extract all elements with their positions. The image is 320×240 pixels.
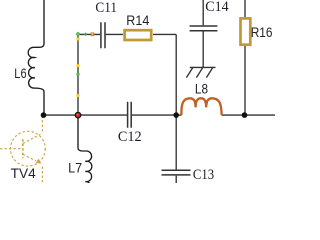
marker yellow 3 bbox=[77, 94, 80, 97]
inductor L6 bbox=[28, 0, 44, 115]
marker blue bbox=[77, 42, 78, 43]
wire R16 bottom lead bbox=[244, 46, 246, 115]
capacitor C14 bbox=[190, 26, 218, 31]
wire C11 to R14 bbox=[106, 33, 123, 35]
svg-text:C14: C14 bbox=[205, 0, 229, 15]
resistor R14 bbox=[125, 30, 152, 40]
wire vertical node column bbox=[77, 34, 79, 115]
node red bbox=[75, 112, 82, 119]
marker green diamond corner bbox=[76, 32, 80, 36]
marker green diamond small bbox=[84, 33, 87, 36]
wire middle rail left bbox=[44, 114, 128, 116]
capacitor C12 bbox=[128, 102, 132, 128]
svg-text:R14: R14 bbox=[126, 12, 149, 28]
junction dot A bbox=[41, 112, 47, 118]
ground bbox=[186, 67, 215, 77]
svg-text:C13: C13 bbox=[193, 167, 214, 183]
marker yellow 1 bbox=[77, 38, 80, 41]
svg-text:R16: R16 bbox=[251, 24, 273, 40]
marker yellow 2 bbox=[77, 64, 80, 67]
capacitor C13 bbox=[162, 170, 191, 175]
svg-text:L8: L8 bbox=[195, 80, 208, 96]
transistor TV4 emitter arrow bbox=[36, 159, 42, 164]
wire R14 to corner bbox=[153, 33, 176, 35]
inductor L8 bbox=[181, 98, 221, 115]
marker orange square bbox=[91, 33, 94, 36]
wire top rail left bbox=[78, 33, 100, 35]
wire C14 top lead bbox=[202, 0, 204, 25]
junction dot C bbox=[242, 112, 248, 118]
wire L8 right stub to junction and edge bbox=[222, 114, 276, 116]
resistor R16 bbox=[241, 18, 251, 44]
svg-text:TV4: TV4 bbox=[11, 165, 36, 181]
transistor TV4 bbox=[0, 117, 45, 184]
inductor L7 bbox=[78, 115, 92, 192]
svg-text:L7: L7 bbox=[68, 160, 82, 176]
wire C13 branch bbox=[175, 115, 177, 183]
marker green circle bbox=[77, 73, 80, 76]
capacitor C11 bbox=[101, 22, 105, 48]
svg-text:C11: C11 bbox=[95, 0, 117, 16]
wire R16 top lead bbox=[244, 0, 246, 17]
wire corner down to junction bbox=[175, 34, 177, 115]
wire middle rail right of C12 bbox=[132, 114, 176, 116]
junction dot B bbox=[173, 112, 179, 118]
wire L8 left stub bbox=[176, 114, 181, 116]
wire C14 to ground bbox=[202, 32, 204, 68]
svg-text:L6: L6 bbox=[14, 65, 26, 81]
svg-text:C12: C12 bbox=[118, 129, 142, 145]
